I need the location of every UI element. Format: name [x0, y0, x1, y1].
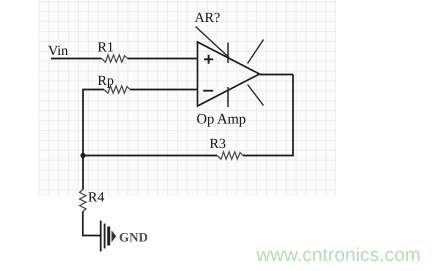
wire op-amp output [260, 74, 294, 76]
ground GND symbol [101, 221, 109, 252]
svg-text:R1: R1 [98, 41, 114, 56]
op-amp - marker [203, 90, 213, 92]
svg-text:Op Amp: Op Amp [197, 112, 247, 128]
op-amp U1 triangle [198, 42, 260, 106]
resistor R3 [217, 152, 243, 159]
op-amp + marker [204, 55, 213, 64]
op-amp offset pin lower-right diagonal [248, 85, 264, 106]
schematic sheet with grid [38, 0, 336, 196]
wire bottom feedback right segment [243, 75, 293, 156]
wire Rp to op-amp - input [130, 89, 198, 91]
svg-text:AR?: AR? [195, 11, 221, 26]
op-amp V+ power pin [227, 43, 229, 64]
svg-text:www.cntronics.com: www.cntronics.com [256, 245, 421, 266]
op-amp offset pin upper-right diagonal [248, 40, 264, 64]
svg-text:R4: R4 [88, 191, 104, 206]
wire Vin input [51, 58, 102, 60]
wire Rp corner and lead [83, 90, 104, 156]
resistor R4 [80, 190, 86, 212]
resistor Rp [104, 86, 130, 93]
op-amp V- power pin [227, 87, 229, 107]
wire R4 to ground [83, 212, 100, 236]
op-amp offset pin upper-left diagonal [196, 27, 230, 58]
svg-text:Rp: Rp [98, 74, 114, 89]
wire junction to R4 [82, 156, 84, 190]
wire bottom feedback left segment [83, 155, 217, 157]
node junction dot [80, 153, 85, 158]
wire R1 to op-amp + input [128, 58, 198, 60]
svg-text:R3: R3 [210, 137, 226, 152]
svg-text:Vin: Vin [48, 44, 68, 59]
resistor R1 [102, 55, 128, 62]
svg-text:GND: GND [119, 230, 148, 245]
